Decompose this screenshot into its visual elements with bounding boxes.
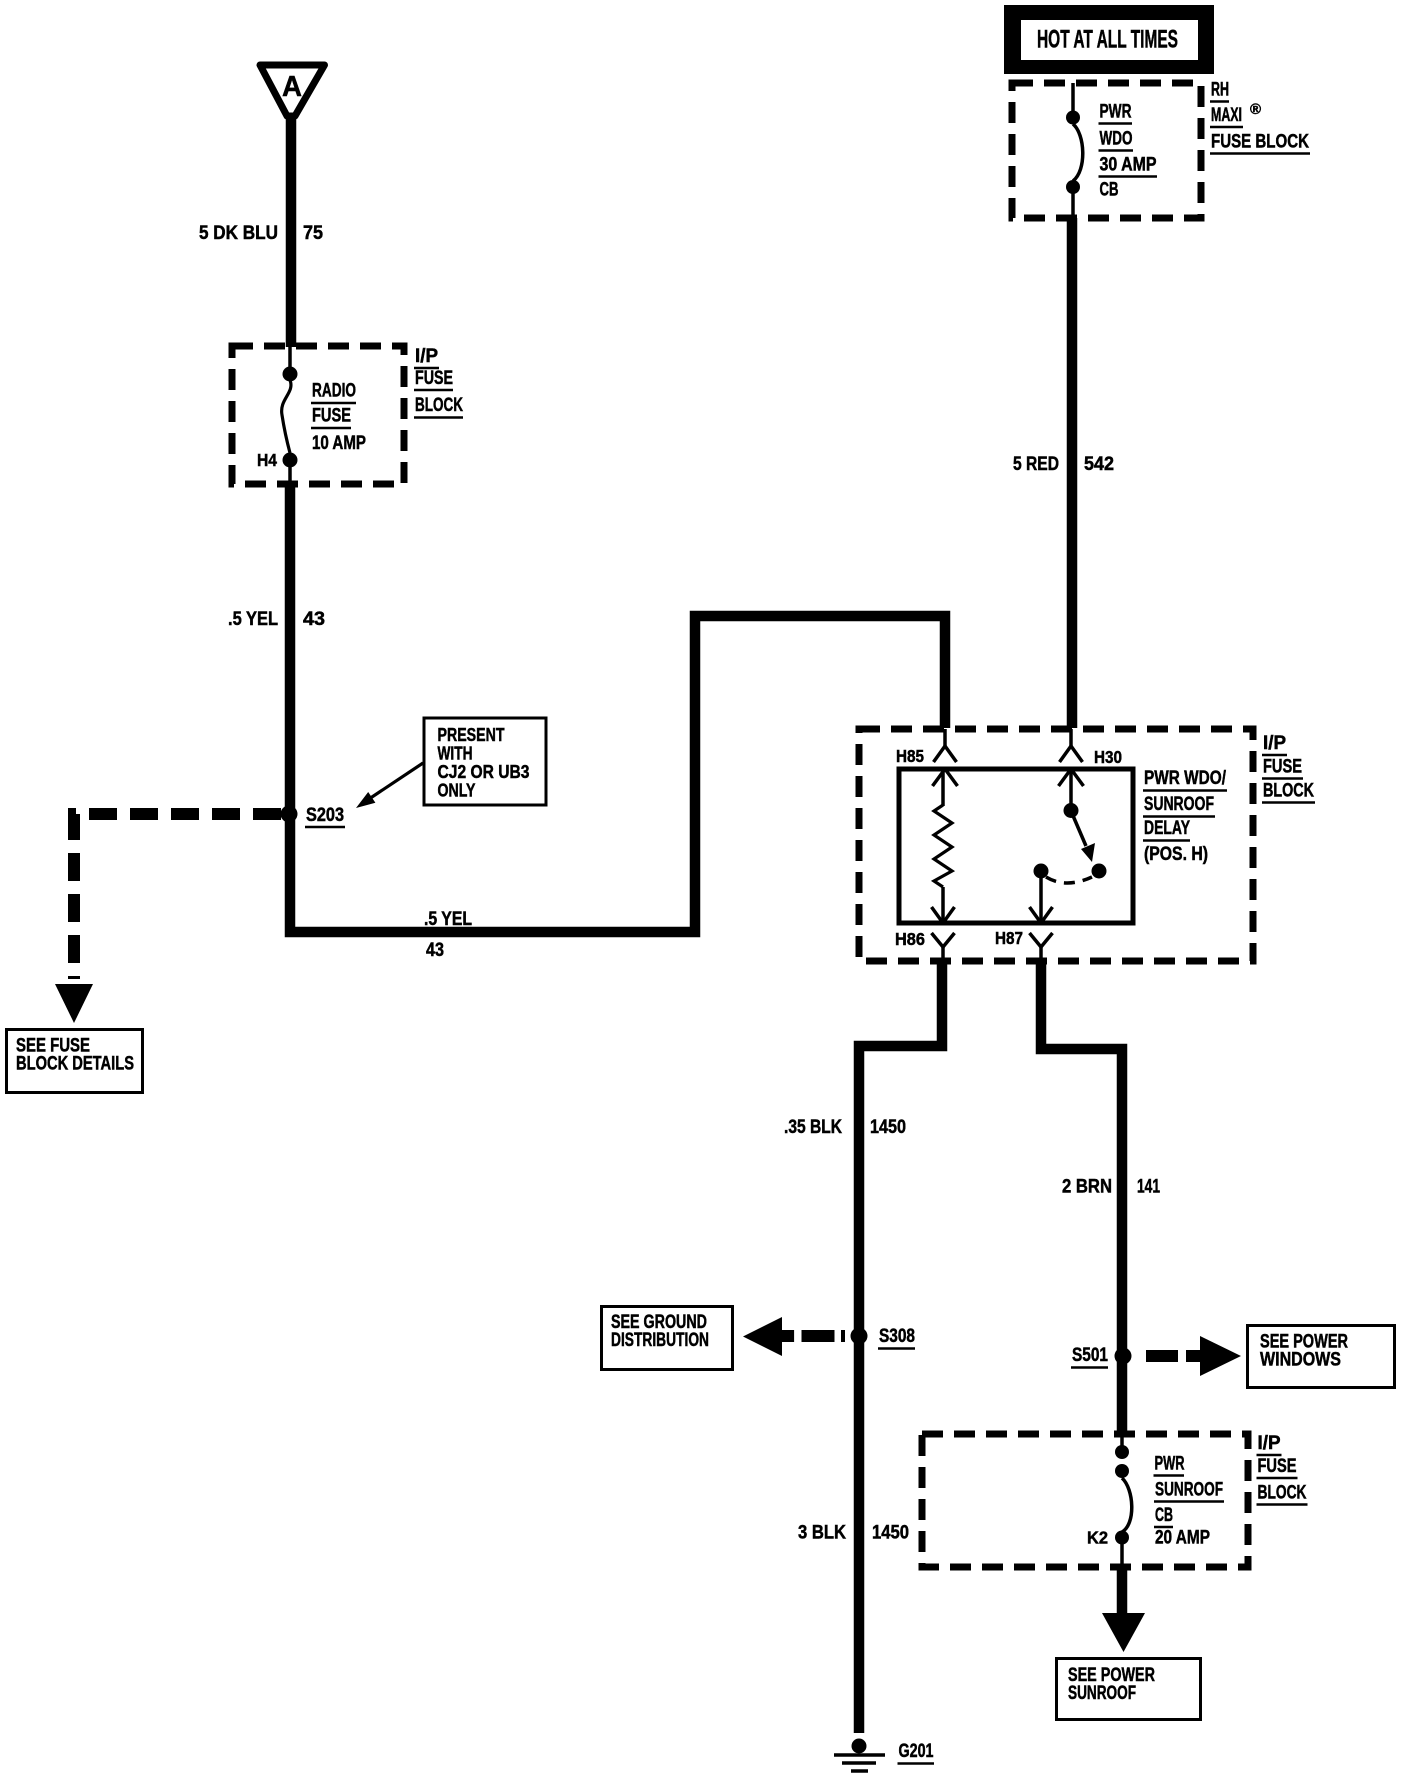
svg-text:ONLY: ONLY [438, 780, 476, 801]
svg-text:1450: 1450 [870, 1117, 906, 1138]
svg-text:.35 BLK: .35 BLK [784, 1117, 842, 1138]
svg-text:FUSE BLOCK: FUSE BLOCK [1211, 132, 1309, 153]
arrow to see ground distribution [743, 1317, 782, 1356]
wire into circuit breaker [1071, 83, 1075, 111]
wire: breaker K2 to power sunroof [1117, 1567, 1128, 1614]
relay coil (resistor zigzag) [934, 805, 952, 887]
splice S203 [281, 806, 298, 823]
svg-text:5 RED: 5 RED [1013, 454, 1059, 475]
svg-text:FUSE: FUSE [1258, 1456, 1297, 1477]
svg-text:2 BRN: 2 BRN [1062, 1177, 1112, 1198]
wire: relay H87 to sunroof breaker (2 BRN 141) [1041, 959, 1122, 1436]
svg-text:DELAY: DELAY [1144, 818, 1190, 839]
svg-text:H85: H85 [896, 746, 924, 766]
note box SEE FUSE BLOCK DETAILS [7, 1030, 143, 1093]
svg-text:43: 43 [426, 940, 444, 961]
wire out of fuse [288, 466, 292, 485]
fuse element RADIO FUSE 10 AMP [282, 380, 291, 453]
svg-text:HOT AT ALL TIMES: HOT AT ALL TIMES [1037, 26, 1178, 54]
relay switch contact (right) [1092, 864, 1107, 879]
svg-text:141: 141 [1137, 1177, 1160, 1198]
RH MAXI fuse block dashed box [1012, 83, 1201, 218]
wire: fuse H4 down through S203, right, up and right to relay H85 (.5 YEL 43) [290, 484, 945, 932]
note box SEE GROUND DISTRIBUTION [602, 1307, 733, 1370]
svg-text:PWR WDO/: PWR WDO/ [1144, 768, 1227, 789]
power feed banner HOT AT ALL TIMES [1004, 5, 1214, 74]
breaker terminal node (second) [1115, 1464, 1129, 1478]
svg-text:SUNROOF: SUNROOF [1155, 1480, 1223, 1501]
svg-text:75: 75 [303, 223, 323, 244]
svg-text:H87: H87 [995, 928, 1023, 948]
svg-text:H86: H86 [895, 929, 925, 949]
terminal H30 connector [1060, 729, 1123, 767]
svg-text:WDO: WDO [1100, 129, 1133, 150]
svg-text:S501: S501 [1072, 1345, 1108, 1366]
note box PRESENT WITH CJ2 OR UB3 ONLY [424, 718, 546, 805]
svg-text:PWR: PWR [1100, 102, 1132, 123]
svg-text:RADIO: RADIO [312, 381, 356, 402]
relay switch common node [1064, 803, 1079, 818]
svg-text:(POS. H): (POS. H) [1144, 844, 1208, 865]
wire: connector A to I/P fuse block (5 DK BLU 75) [286, 114, 297, 347]
svg-text:20 AMP: 20 AMP [1155, 1528, 1210, 1549]
svg-text:.5 YEL: .5 YEL [424, 909, 472, 930]
breaker terminal node K2 [1115, 1531, 1129, 1545]
svg-text:WINDOWS: WINDOWS [1260, 1350, 1341, 1371]
circuit breaker element PWR WDO 30 AMP CB [1073, 124, 1083, 181]
svg-text:CB: CB [1155, 1505, 1173, 1526]
svg-text:FUSE: FUSE [415, 368, 453, 389]
svg-text:5 DK BLU: 5 DK BLU [199, 223, 278, 244]
svg-text:SUNROOF: SUNROOF [1068, 1683, 1136, 1704]
svg-text:DISTRIBUTION: DISTRIBUTION [611, 1330, 709, 1351]
circuit breaker element PWR SUNROOF CB 20 AMP [1122, 1478, 1132, 1532]
svg-text:FUSE: FUSE [1263, 757, 1302, 778]
svg-text:®: ® [1250, 101, 1261, 118]
svg-text:.5 YEL: .5 YEL [228, 609, 278, 630]
svg-text:BLOCK: BLOCK [1263, 781, 1314, 802]
wire out of breaker [1071, 193, 1075, 218]
svg-text:A: A [282, 71, 302, 103]
svg-text:CB: CB [1100, 180, 1119, 201]
svg-text:I/P: I/P [1258, 1433, 1281, 1454]
svg-text:PWR: PWR [1155, 1454, 1185, 1475]
dashed stub from S501 [1133, 1350, 1200, 1362]
breaker terminal node (top) [1066, 111, 1080, 125]
I/P fuse block dashed box (sunroof breaker) [922, 1434, 1248, 1567]
svg-text:1450: 1450 [872, 1523, 909, 1544]
svg-text:G201: G201 [899, 1741, 934, 1762]
svg-text:BLOCK: BLOCK [1258, 1483, 1307, 1504]
svg-text:MAXI: MAXI [1211, 105, 1242, 126]
svg-text:I/P: I/P [415, 346, 438, 367]
wire from left contact to H87 [1039, 878, 1043, 921]
splice S308 [851, 1328, 868, 1345]
switch travel dashed arc [1046, 877, 1092, 883]
relay switch blade (arrow) [1071, 811, 1086, 846]
terminal H87 connector [995, 928, 1053, 960]
wire: breaker to relay H30 (5 RED 542) [1067, 218, 1078, 728]
svg-text:S308: S308 [879, 1326, 915, 1347]
terminal H85 connector [896, 729, 957, 766]
splice S501 [1115, 1348, 1132, 1365]
dashed wire from S203 to fuse block details [74, 814, 281, 979]
wire: relay H86 to ground (.35 BLK / 3 BLK 1450) [859, 959, 942, 1733]
svg-text:H30: H30 [1094, 747, 1122, 767]
pin arrow into relay at H30 [1059, 769, 1072, 786]
terminal H86 connector [895, 929, 955, 960]
breaker terminal node (bottom) [1066, 180, 1080, 194]
pin arrow out of relay at H86 [932, 907, 944, 923]
svg-text:S203: S203 [306, 805, 344, 826]
fuse terminal node H4 (bottom) [283, 453, 298, 468]
svg-text:SUNROOF: SUNROOF [1144, 794, 1214, 815]
relay outline PWR WDO/SUNROOF DELAY [899, 769, 1133, 923]
svg-text:K2: K2 [1087, 1528, 1108, 1548]
relay switch contact (left) [1034, 864, 1049, 879]
svg-text:RH: RH [1211, 80, 1229, 101]
I/P fuse block (radio fuse) dashed box [232, 346, 404, 484]
svg-text:BLOCK DETAILS: BLOCK DETAILS [16, 1054, 134, 1075]
svg-text:43: 43 [303, 609, 325, 630]
svg-text:3 BLK: 3 BLK [798, 1523, 846, 1544]
dashed stub from S308 [781, 1330, 851, 1342]
ground G201 [834, 1739, 934, 1772]
svg-text:FUSE: FUSE [312, 406, 351, 427]
svg-text:I/P: I/P [1263, 733, 1286, 754]
svg-text:10 AMP: 10 AMP [312, 433, 366, 454]
note box SEE POWER WINDOWS [1248, 1326, 1395, 1388]
arrow to see power sunroof [1102, 1613, 1145, 1652]
svg-text:542: 542 [1084, 454, 1114, 475]
callout arrow from note box to S203 [366, 763, 423, 801]
pin arrow out of relay at H87 [1030, 907, 1042, 923]
wire out of breaker [1120, 1544, 1124, 1567]
pin arrow into relay at H85 [933, 769, 946, 786]
wire into fuse [288, 346, 292, 368]
breaker terminal node (top) [1115, 1445, 1129, 1459]
arrow to see power windows [1200, 1336, 1241, 1376]
wire into breaker [1120, 1436, 1124, 1446]
svg-text:BLOCK: BLOCK [415, 395, 463, 416]
fuse terminal node (top) [283, 367, 298, 382]
svg-text:H4: H4 [257, 450, 277, 470]
note box SEE POWER SUNROOF [1057, 1659, 1201, 1720]
I/P fuse block dashed box (relay cavity) [859, 729, 1253, 961]
svg-text:30 AMP: 30 AMP [1100, 155, 1157, 176]
arrow to see fuse block details [55, 984, 93, 1023]
connector A (circuit reference triangle) [260, 65, 325, 116]
